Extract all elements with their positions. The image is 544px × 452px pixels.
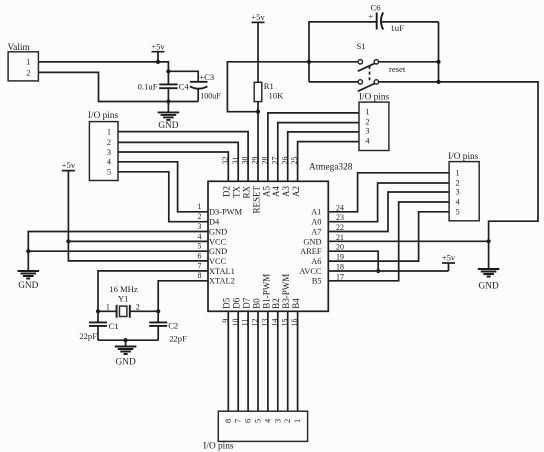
svg-text:D6: D6 xyxy=(232,297,242,308)
svg-text:GND: GND xyxy=(479,282,499,292)
svg-text:2: 2 xyxy=(365,117,369,126)
svg-text:GND: GND xyxy=(18,281,38,291)
svg-text:C4: C4 xyxy=(179,82,190,92)
svg-text:TX: TX xyxy=(232,186,242,198)
node R1/RESET junction xyxy=(256,110,260,114)
wire mid box pin2 to A4 xyxy=(278,123,359,182)
wire mid box pin4 to A2 xyxy=(298,142,359,182)
node AREF/AVCC junction xyxy=(376,269,380,273)
node S1 top right junction xyxy=(436,60,440,64)
left pin numbers 1-8 xyxy=(198,202,202,280)
node crystal right xyxy=(156,309,160,313)
svg-text:B4: B4 xyxy=(291,298,301,309)
wire A0 pin23 to right box pin2 xyxy=(328,183,449,222)
svg-text:1: 1 xyxy=(107,127,111,136)
svg-text:GND: GND xyxy=(209,227,227,236)
svg-text:2: 2 xyxy=(456,179,460,188)
wire A6 pin19 to right box pin5 xyxy=(328,212,449,261)
svg-text:D2: D2 xyxy=(222,186,232,197)
svg-text:+: + xyxy=(368,11,373,21)
node left GND junction xyxy=(26,249,30,253)
svg-text:100uF: 100uF xyxy=(200,92,221,101)
svg-text:2: 2 xyxy=(136,302,140,311)
svg-text:6: 6 xyxy=(198,252,202,261)
svg-text:1: 1 xyxy=(26,58,30,67)
ground left xyxy=(18,251,40,291)
svg-text:6: 6 xyxy=(244,419,253,423)
svg-text:VCC: VCC xyxy=(209,257,227,266)
svg-text:27: 27 xyxy=(270,156,279,164)
svg-text:RESET: RESET xyxy=(251,186,261,214)
svg-text:8: 8 xyxy=(198,271,202,280)
wire RESET to switch S1 xyxy=(227,62,357,112)
svg-text:Atmega328: Atmega328 xyxy=(309,163,353,173)
wire left box pin1 to RX xyxy=(118,132,248,182)
svg-text:A6: A6 xyxy=(311,257,321,266)
svg-text:I/O pins: I/O pins xyxy=(448,152,479,162)
wire left box pin2 to TX xyxy=(118,142,238,181)
wire Valim pin2 to ground rail xyxy=(38,72,168,101)
svg-text:A5: A5 xyxy=(261,186,271,197)
svg-text:A4: A4 xyxy=(271,186,281,197)
svg-text:A7: A7 xyxy=(311,227,321,236)
wire reset net to right ground rail xyxy=(439,82,539,241)
wires chip bottom pins to bottom connector xyxy=(228,311,297,411)
wire left box pin4 to D3-PWM xyxy=(118,162,208,212)
svg-text:I/O pins: I/O pins xyxy=(88,111,119,121)
capacitor C1 22pF xyxy=(79,311,118,341)
svg-text:B1-PWM: B1-PWM xyxy=(261,274,271,309)
svg-text:10K: 10K xyxy=(269,90,285,100)
svg-text:C1: C1 xyxy=(109,321,119,331)
connector Valim xyxy=(8,43,39,81)
right pin numbers 24-17 xyxy=(336,203,344,281)
wire left box pin3 to D2 xyxy=(118,152,228,181)
svg-text:3: 3 xyxy=(273,419,282,423)
wire crystal ground rail xyxy=(98,339,158,341)
connector I/O pins middle (A5-A2) xyxy=(359,92,390,150)
wire VCC pin6 xyxy=(68,241,208,261)
svg-text:1: 1 xyxy=(293,419,302,423)
bottom pin numbers rotated 9-16 xyxy=(221,319,299,327)
svg-text:7: 7 xyxy=(198,261,202,270)
svg-text:B3-PWM: B3-PWM xyxy=(281,274,291,309)
svg-text:XTAL1: XTAL1 xyxy=(209,267,235,276)
svg-text:+5v: +5v xyxy=(151,41,165,51)
svg-text:1uF: 1uF xyxy=(391,23,405,33)
wire B5 pin17 to right box pin4 xyxy=(328,202,449,281)
svg-text:29: 29 xyxy=(251,156,260,164)
svg-text:GND: GND xyxy=(209,247,227,256)
bottom pin names rotated xyxy=(222,274,301,309)
svg-text:4: 4 xyxy=(365,136,370,145)
node crystal ground junction xyxy=(124,338,128,342)
svg-text:4: 4 xyxy=(107,158,112,167)
svg-text:25: 25 xyxy=(290,156,299,164)
svg-text:2: 2 xyxy=(107,138,111,147)
svg-text:A3: A3 xyxy=(281,186,291,197)
svg-text:4: 4 xyxy=(456,198,461,207)
svg-text:2: 2 xyxy=(26,69,30,78)
resistor R1 xyxy=(254,81,284,102)
svg-text:4: 4 xyxy=(198,232,202,241)
svg-text:4: 4 xyxy=(263,418,272,423)
svg-text:2: 2 xyxy=(198,212,202,221)
node GND junction C4 xyxy=(166,99,170,103)
svg-text:Y1: Y1 xyxy=(118,293,129,303)
svg-text:7: 7 xyxy=(234,419,243,423)
svg-text:1: 1 xyxy=(198,202,202,211)
+5v supply near Valim xyxy=(151,41,165,62)
svg-text:5: 5 xyxy=(107,168,111,177)
wire AREF pin20 to AVCC xyxy=(328,251,378,271)
wire A7 pin22 to right box pin3 xyxy=(328,192,449,232)
top pin numbers rotated 32-25 xyxy=(221,156,299,164)
wire GND pin21 to right ground xyxy=(328,240,488,242)
capacitor C4 0.1uF xyxy=(138,71,190,101)
svg-text:D3-PWM: D3-PWM xyxy=(209,208,243,217)
svg-text:3: 3 xyxy=(198,222,202,231)
svg-text:1: 1 xyxy=(106,302,110,311)
ground crystal xyxy=(115,340,137,367)
node VCC junction xyxy=(66,239,70,243)
svg-text:B2: B2 xyxy=(271,298,281,309)
ground bottom right xyxy=(478,241,500,291)
svg-text:reset: reset xyxy=(389,64,406,74)
svg-text:AVCC: AVCC xyxy=(299,267,322,276)
svg-text:22pF: 22pF xyxy=(79,331,97,341)
svg-text:D7: D7 xyxy=(242,297,252,308)
+5v supply right xyxy=(442,252,456,271)
svg-text:RX: RX xyxy=(242,186,252,199)
svg-text:GND: GND xyxy=(158,121,178,131)
+5v supply left xyxy=(62,160,76,241)
wire VCC pin4 xyxy=(68,240,208,242)
wire XTAL1 pin7 xyxy=(98,271,208,311)
crystal Y1 16 MHz xyxy=(98,284,158,318)
svg-text:D5: D5 xyxy=(222,297,232,308)
wire C3 branch xyxy=(168,71,198,101)
wire AVCC pin18 to +5v xyxy=(328,270,448,272)
svg-text:B0: B0 xyxy=(251,298,261,309)
ground top middle xyxy=(158,102,180,132)
right pin names xyxy=(299,208,322,286)
svg-text:C2: C2 xyxy=(168,321,178,331)
wire Valim pin1 to C4 top xyxy=(38,62,168,71)
svg-text:A2: A2 xyxy=(291,186,301,197)
svg-text:+5v: +5v xyxy=(251,12,265,22)
left pin names xyxy=(209,208,243,286)
connector I/O pins right xyxy=(448,152,479,221)
node C3 branch xyxy=(166,69,170,73)
wire left box pin5 to D4 xyxy=(118,172,208,222)
capacitor C6 1uF with loop xyxy=(309,3,439,82)
svg-text:I/O pins: I/O pins xyxy=(203,442,234,452)
wire mid box pin1 to A5 xyxy=(268,113,359,181)
svg-text:AREF: AREF xyxy=(300,247,322,256)
svg-text:3: 3 xyxy=(456,188,460,197)
node right GND junction xyxy=(487,239,491,243)
svg-text:+5v: +5v xyxy=(442,252,456,262)
wire XTAL2 pin8 xyxy=(158,281,208,312)
pushbutton S1 xyxy=(309,41,439,92)
svg-text:26: 26 xyxy=(280,156,289,164)
svg-text:+5v: +5v xyxy=(62,160,76,170)
svg-text:0.1uF: 0.1uF xyxy=(138,82,158,92)
svg-text:XTAL2: XTAL2 xyxy=(209,277,235,286)
svg-text:5: 5 xyxy=(254,419,263,423)
svg-text:8: 8 xyxy=(224,419,233,423)
capacitor C2 22pF xyxy=(149,311,187,343)
svg-text:Valim: Valim xyxy=(8,43,31,53)
svg-text:A1: A1 xyxy=(311,208,321,217)
IC U1 Atmega328 body xyxy=(208,163,353,312)
svg-text:18: 18 xyxy=(336,262,344,271)
node crystal left xyxy=(96,309,100,313)
connector I/O pins left xyxy=(88,111,119,180)
svg-text:3: 3 xyxy=(107,148,111,157)
node S1 bottom right junction xyxy=(436,80,440,84)
+5v supply top xyxy=(251,12,265,83)
svg-text:I/O pins: I/O pins xyxy=(359,92,390,102)
svg-text:1: 1 xyxy=(365,108,369,117)
wire GND pin5 to left ground xyxy=(28,250,208,252)
svg-text:B5: B5 xyxy=(312,277,322,286)
wire A1 pin24 to right box pin1 xyxy=(328,173,449,212)
svg-text:VCC: VCC xyxy=(209,237,227,246)
connector I/O pins bottom xyxy=(203,411,307,451)
svg-text:+C3: +C3 xyxy=(199,72,214,82)
svg-text:22pF: 22pF xyxy=(169,334,187,344)
svg-text:3: 3 xyxy=(365,127,369,136)
svg-text:A0: A0 xyxy=(311,218,321,227)
wire mid box pin3 to A3 xyxy=(288,132,359,181)
svg-text:GND: GND xyxy=(116,358,136,368)
wire R1 bottom to RESET pin xyxy=(257,102,259,182)
svg-text:GND: GND xyxy=(303,237,321,246)
svg-text:5: 5 xyxy=(198,242,202,251)
node S1 left junction xyxy=(307,60,311,64)
svg-text:1: 1 xyxy=(456,169,460,178)
svg-text:2: 2 xyxy=(283,419,292,423)
top pin names rotated xyxy=(222,186,301,214)
wire GND pin3 to left ground xyxy=(28,232,208,252)
svg-text:5: 5 xyxy=(456,208,460,217)
svg-text:S1: S1 xyxy=(357,41,366,51)
capacitor C3 100uF xyxy=(190,72,221,100)
svg-text:D4: D4 xyxy=(209,218,220,227)
svg-text:28: 28 xyxy=(261,156,270,164)
node +5v tap xyxy=(156,60,160,64)
